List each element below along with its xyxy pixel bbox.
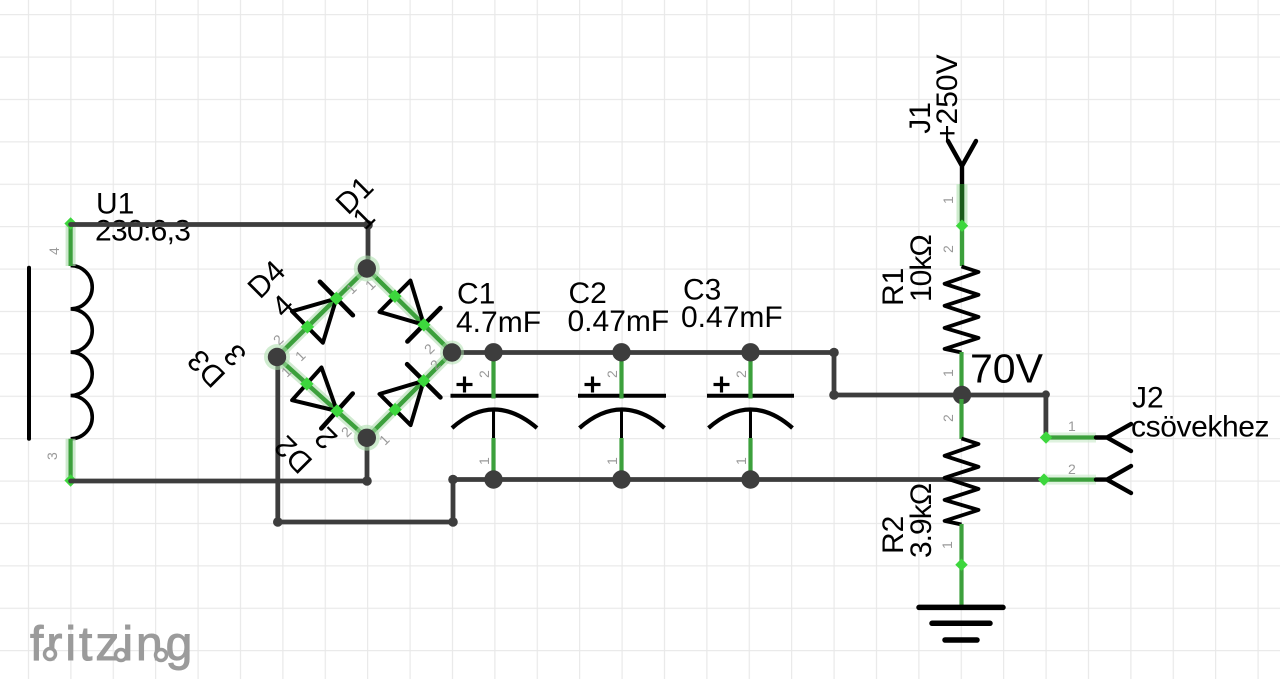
svg-text:3.9kΩ: 3.9kΩ — [905, 483, 938, 558]
wire top rail — [452, 348, 962, 400]
svg-text:10kΩ: 10kΩ — [905, 235, 938, 302]
svg-text:+250V: +250V — [931, 54, 964, 142]
svg-text:1: 1 — [604, 457, 620, 465]
node left — [264, 344, 290, 370]
svg-text:3: 3 — [44, 452, 60, 460]
diode D2 — [268, 368, 352, 480]
capacitor C2 — [568, 277, 670, 480]
node C1 top — [484, 343, 502, 361]
svg-text:1: 1 — [940, 196, 956, 204]
diode D1 — [330, 170, 441, 341]
svg-text:2: 2 — [940, 414, 956, 422]
svg-text:2: 2 — [476, 370, 492, 378]
svg-text:1: 1 — [940, 369, 956, 377]
label U1 — [95, 188, 190, 248]
resistor R2 — [877, 399, 979, 605]
wire bottom rail — [453, 477, 1042, 482]
bridge pin numbers — [270, 276, 444, 448]
svg-text:0.47mF: 0.47mF — [681, 301, 783, 334]
capacitor C1 — [451, 278, 542, 480]
transformer U1 core bar — [27, 268, 31, 439]
svg-text:1: 1 — [939, 541, 955, 549]
svg-text:2: 2 — [733, 370, 749, 378]
wire J1 to R1 — [956, 219, 968, 266]
svg-text:fritzing: fritzing — [30, 618, 195, 671]
svg-text:0.47mF: 0.47mF — [568, 305, 670, 338]
connector J2 — [1038, 382, 1269, 494]
transformer U1 secondary coil — [71, 266, 93, 439]
transformer U1 pin 4 — [64, 217, 76, 266]
node C3 top — [741, 343, 759, 361]
wire transformer pin4 to bridge top — [71, 220, 373, 268]
wire node 70V to J2 pin1 — [962, 390, 1050, 435]
svg-text:4.7mF: 4.7mF — [456, 306, 541, 339]
svg-text:2: 2 — [1068, 461, 1076, 477]
svg-text:2: 2 — [940, 245, 956, 253]
node C3 bottom — [741, 470, 759, 488]
node C1 bottom — [484, 470, 502, 488]
svg-text:1: 1 — [733, 457, 749, 465]
connector J1 — [904, 54, 976, 224]
svg-text:4: 4 — [46, 247, 62, 255]
wire transformer pin3 to bridge bottom — [71, 438, 372, 486]
node 70V junction — [953, 386, 971, 404]
node C2 top — [612, 343, 630, 361]
resistor R1 — [877, 235, 979, 391]
node bottom — [354, 425, 380, 451]
node right — [440, 341, 464, 365]
node C2 bottom — [612, 470, 630, 488]
node top — [354, 256, 380, 282]
wire bridge left node to bottom rail — [273, 357, 458, 527]
svg-text:70V: 70V — [970, 346, 1044, 392]
capacitor C3 — [681, 274, 794, 480]
transformer U1 pin 3 — [64, 439, 76, 487]
svg-text:230:6,3: 230:6,3 — [95, 215, 190, 248]
fritzing watermark — [30, 618, 195, 671]
diode D3 — [181, 337, 440, 425]
svg-text:1: 1 — [1068, 418, 1076, 434]
svg-text:csövekhez: csövekhez — [1131, 411, 1269, 444]
ground — [919, 607, 1003, 640]
svg-text:1: 1 — [476, 457, 492, 465]
diode D4 — [242, 254, 353, 342]
bridge green edges — [277, 269, 452, 438]
svg-text:2: 2 — [604, 370, 620, 378]
